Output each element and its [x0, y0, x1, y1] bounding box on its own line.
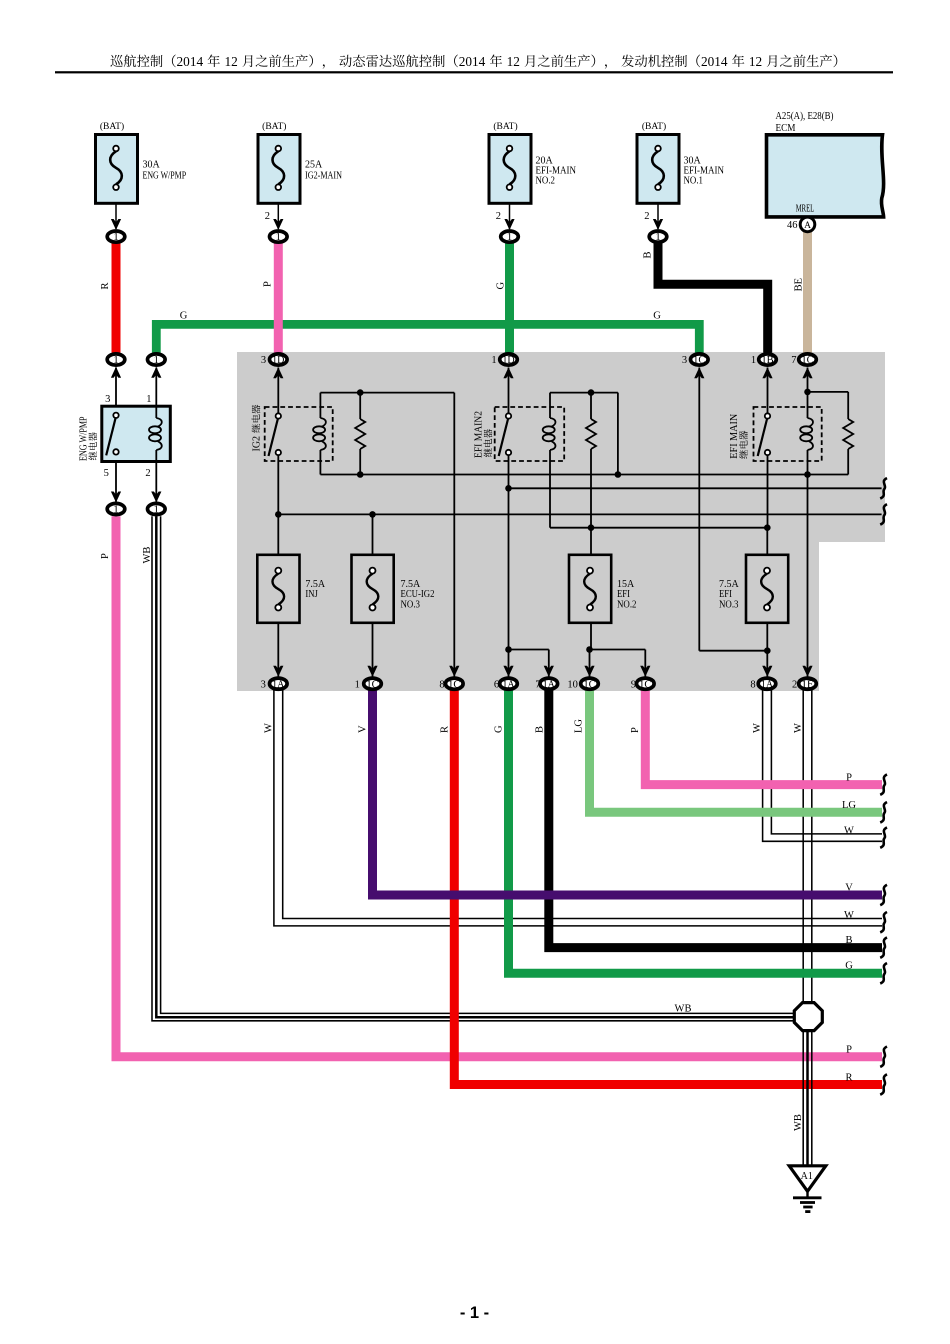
svg-text:2: 2: [145, 468, 150, 479]
svg-text:2: 2: [265, 211, 270, 222]
svg-text:5: 5: [104, 468, 109, 479]
svg-text:P: P: [630, 727, 641, 733]
svg-text:3: 3: [261, 355, 266, 366]
svg-text:B: B: [845, 935, 852, 946]
svg-text:G: G: [494, 725, 505, 733]
svg-text:7: 7: [535, 679, 540, 690]
svg-text:W: W: [844, 826, 854, 837]
svg-text:2: 2: [496, 211, 501, 222]
svg-text:LG: LG: [842, 800, 856, 811]
svg-text:BE: BE: [793, 278, 804, 291]
svg-text:NO.2: NO.2: [536, 175, 556, 186]
svg-text:R: R: [100, 282, 111, 289]
svg-text:1: 1: [751, 355, 756, 366]
svg-text:7: 7: [791, 355, 796, 366]
svg-text:8: 8: [439, 679, 444, 690]
svg-text:1: 1: [276, 231, 282, 243]
svg-text:A: A: [804, 221, 811, 231]
svg-text:(BAT): (BAT): [642, 121, 666, 132]
svg-text:1E: 1E: [801, 678, 814, 690]
svg-text:1C: 1C: [448, 678, 460, 690]
svg-text:2: 2: [644, 211, 649, 222]
svg-text:46: 46: [787, 220, 798, 231]
svg-text:1A: 1A: [761, 678, 773, 690]
svg-text:1B: 1B: [761, 354, 773, 366]
svg-text:G: G: [845, 961, 853, 972]
svg-text:- 1 -: - 1 -: [460, 1304, 489, 1322]
svg-text:1: 1: [113, 231, 119, 243]
svg-text:W: W: [793, 723, 804, 733]
svg-text:A1: A1: [801, 1171, 813, 1182]
svg-text:1C: 1C: [693, 354, 705, 366]
svg-text:LG: LG: [574, 719, 585, 733]
svg-text:8: 8: [750, 679, 755, 690]
svg-text:EFI MAIN: EFI MAIN: [729, 414, 740, 459]
svg-text:2: 2: [792, 679, 797, 690]
svg-text:(BAT): (BAT): [262, 121, 286, 132]
svg-text:G: G: [180, 311, 188, 322]
svg-text:(BAT): (BAT): [100, 121, 124, 132]
svg-text:1: 1: [491, 355, 496, 366]
svg-text:R: R: [845, 1073, 852, 1084]
svg-text:1D: 1D: [502, 354, 514, 366]
svg-text:12: 12: [749, 54, 762, 69]
svg-text:P: P: [846, 1045, 852, 1056]
svg-text:1C: 1C: [801, 354, 813, 366]
svg-text:WB: WB: [793, 1114, 804, 1131]
svg-text:12: 12: [224, 54, 237, 69]
svg-text:1: 1: [154, 504, 160, 516]
svg-text:1: 1: [146, 394, 151, 405]
svg-text:B: B: [643, 251, 654, 258]
svg-text:V: V: [845, 883, 853, 894]
svg-text:1: 1: [154, 354, 160, 366]
svg-text:P: P: [263, 281, 274, 287]
svg-text:W: W: [844, 910, 854, 921]
svg-text:INJ: INJ: [305, 589, 318, 600]
svg-text:IG2: IG2: [252, 436, 263, 452]
svg-text:WB: WB: [142, 547, 153, 564]
svg-text:NO.2: NO.2: [617, 599, 637, 610]
svg-text:ECM: ECM: [776, 123, 797, 134]
svg-text:1A: 1A: [502, 678, 514, 690]
svg-text:EFI MAIN2: EFI MAIN2: [474, 411, 485, 458]
svg-text:NO.3: NO.3: [401, 599, 421, 610]
svg-text:2014: 2014: [701, 54, 728, 69]
svg-text:30A: 30A: [143, 160, 161, 171]
svg-text:NO.3: NO.3: [719, 599, 739, 610]
svg-text:W: W: [264, 723, 275, 733]
svg-text:NO.1: NO.1: [684, 175, 704, 186]
svg-text:MREL: MREL: [796, 204, 815, 215]
svg-text:9: 9: [631, 679, 636, 690]
svg-text:3: 3: [261, 679, 266, 690]
svg-text:(BAT): (BAT): [493, 121, 517, 132]
svg-text:6: 6: [494, 679, 499, 690]
svg-text:1: 1: [355, 679, 360, 690]
svg-text:IG2-MAIN: IG2-MAIN: [305, 170, 342, 181]
svg-text:A25(A), E28(B): A25(A), E28(B): [776, 111, 834, 122]
svg-text:1A: 1A: [543, 678, 555, 690]
svg-text:P: P: [846, 773, 852, 784]
svg-text:2014: 2014: [459, 54, 486, 69]
svg-text:W: W: [752, 723, 763, 733]
svg-text:12: 12: [507, 54, 520, 69]
svg-text:1A: 1A: [272, 678, 284, 690]
svg-text:1: 1: [655, 231, 661, 243]
svg-text:25A: 25A: [305, 160, 323, 171]
svg-text:R: R: [440, 726, 451, 733]
svg-text:10: 10: [567, 679, 578, 690]
svg-text:3: 3: [105, 394, 110, 405]
svg-text:P: P: [100, 553, 111, 559]
svg-text:1C: 1C: [366, 678, 378, 690]
svg-text:V: V: [358, 725, 369, 733]
svg-text:ENG W/PMP: ENG W/PMP: [143, 170, 187, 181]
svg-text:G: G: [653, 311, 661, 322]
svg-text:B: B: [535, 726, 546, 733]
svg-text:1: 1: [507, 231, 513, 243]
svg-text:1: 1: [113, 354, 119, 366]
svg-text:ENG W/PMP: ENG W/PMP: [79, 416, 90, 461]
svg-text:WB: WB: [675, 1004, 692, 1015]
svg-text:1C: 1C: [639, 678, 651, 690]
svg-text:2014: 2014: [177, 54, 204, 69]
svg-text:3: 3: [682, 355, 687, 366]
svg-text:1D: 1D: [272, 354, 284, 366]
svg-text:G: G: [496, 282, 507, 290]
svg-text:1: 1: [113, 504, 119, 516]
svg-text:1C: 1C: [583, 678, 595, 690]
